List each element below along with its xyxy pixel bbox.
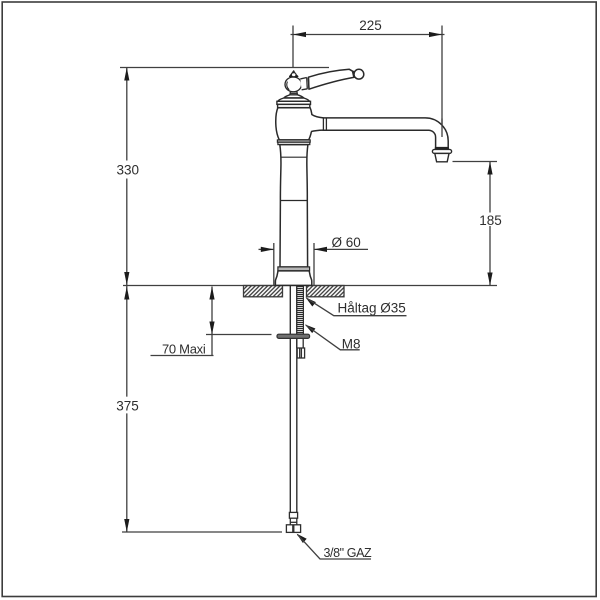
- nozzle flange: [432, 149, 451, 153]
- handle grip lever: [308, 69, 354, 89]
- nozzle cup: [435, 153, 449, 161]
- dim O60 line right part: [314, 248, 368, 250]
- dim 225 line: [291, 34, 445, 36]
- handle cone top: [290, 71, 298, 77]
- cap band 2: [278, 104, 310, 107]
- svg-text:185: 185: [479, 213, 502, 228]
- ext line top (handle top level): [120, 67, 329, 69]
- hose neck: [290, 518, 297, 525]
- svg-text:M8: M8: [342, 336, 361, 351]
- arrow 330 down: [124, 272, 129, 285]
- svg-text:225: 225: [359, 18, 382, 33]
- white gaps behind dimension texts: [114, 161, 503, 414]
- mounting nut M8: [297, 348, 304, 358]
- countertop left hatched section: [244, 286, 283, 297]
- nozzle dark band: [435, 147, 449, 149]
- ext line nozzle bottom: [453, 161, 498, 163]
- ext line O60 left: [273, 243, 275, 285]
- arrow 70 up: [209, 287, 214, 300]
- svg-text:3/8" GAZ: 3/8" GAZ: [324, 546, 373, 560]
- arrow O60 left (points right, outside): [261, 247, 274, 252]
- faucet body group: [323, 118, 448, 148]
- arrow 185 down: [487, 273, 492, 286]
- column: [280, 145, 308, 267]
- leader arrow M8: [305, 324, 316, 333]
- arrow 225 left: [293, 32, 306, 37]
- body barrel: [276, 108, 312, 140]
- arrow 375 up: [124, 287, 129, 300]
- svg-text:330: 330: [117, 163, 140, 178]
- arrowheads for dimensions: [124, 32, 492, 532]
- cap band 1: [277, 101, 311, 104]
- base bell: [275, 271, 311, 286]
- cone base band: [289, 75, 298, 78]
- leader arrow Haltag: [306, 297, 316, 306]
- arrow 225 right: [429, 32, 442, 37]
- rod stub below washer: [297, 338, 303, 348]
- ext line O60 right: [313, 243, 315, 285]
- ext line bottom (375 bottom): [122, 531, 282, 533]
- collar rings below barrel: [277, 140, 310, 145]
- ext line 225 right: [441, 26, 443, 138]
- grip ring lines: [307, 77, 309, 89]
- base ring: [278, 267, 310, 271]
- dim 185 vertical line: [489, 162, 491, 213]
- trumpet ring lines: [323, 118, 326, 131]
- svg-text:Håltag Ø35: Håltag Ø35: [338, 300, 406, 315]
- arrow 70 down: [209, 322, 214, 335]
- supply pipe below counter: [290, 285, 297, 512]
- dim 70 maxi vertical line: [211, 287, 213, 356]
- flared disc under ball stem: [284, 95, 304, 98]
- column joint lines: [281, 156, 307, 158]
- dim 330/375 vertical line: [126, 68, 128, 161]
- washer under counter: [277, 334, 310, 338]
- spout trumpet joint: [308, 114, 323, 131]
- ball highlight arc: [287, 82, 289, 90]
- threaded rod M8: [297, 286, 304, 334]
- dim O60 line left part: [259, 248, 274, 250]
- spout outline: [323, 118, 448, 148]
- cap dome and bands: [277, 95, 311, 108]
- svg-text:Ø 60: Ø 60: [332, 235, 361, 250]
- arrow 375 down: [124, 519, 129, 532]
- handle ball joint: [285, 77, 302, 92]
- grip neck rings: [352, 71, 355, 78]
- wire: 225 right extension over spout: [441, 119, 443, 138]
- arrow 185 up: [487, 162, 492, 175]
- ext line 225 left: [292, 26, 294, 68]
- 3/8 GAZ end nut: [286, 525, 300, 533]
- ext line washer level: [206, 334, 272, 336]
- ext line countertop level: [123, 285, 497, 287]
- handle socket: [300, 78, 307, 90]
- arrow O60 right (points left, outside): [314, 247, 327, 252]
- cone inner circle: [291, 73, 296, 77]
- countertop right hatched section: [307, 286, 345, 297]
- arrow 330 up: [124, 68, 129, 81]
- ball neck: [290, 92, 298, 95]
- dimension texts: [116, 18, 502, 560]
- handle end knob: [354, 69, 364, 79]
- dome: [278, 98, 310, 101]
- svg-text:375: 375: [116, 399, 139, 414]
- hose end collar: [289, 512, 297, 518]
- leader arrow 3/8 GAZ: [297, 534, 307, 543]
- svg-text:70 Maxi: 70 Maxi: [162, 341, 206, 356]
- underline 70 Maxi: [151, 355, 214, 357]
